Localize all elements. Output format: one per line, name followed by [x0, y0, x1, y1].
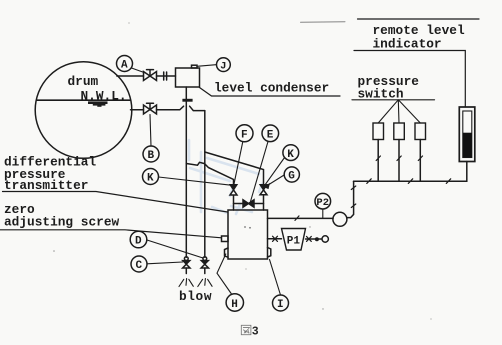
wire water pipe drop: [204, 111, 206, 258]
svg-text:E: E: [267, 130, 274, 142]
wire right impulse branch: [205, 152, 264, 185]
bottom left tab: [225, 248, 229, 257]
node F: [234, 125, 253, 184]
svg-text:K: K: [147, 173, 154, 185]
gauge: [333, 212, 347, 226]
svg-text:K: K: [287, 149, 294, 161]
water level line: [37, 99, 131, 101]
blue scan artifact strokes: [189, 140, 262, 214]
wire transmitter output to gauge: [268, 217, 334, 219]
valve on right impulse line: [260, 185, 267, 210]
svg-text:transmitter: transmitter: [4, 178, 88, 193]
equalizing valve E: [234, 200, 264, 207]
blow-off spray right: [198, 279, 212, 287]
right side tab: [268, 248, 271, 258]
joint ticks on drops: [376, 156, 422, 161]
caption 图3: [241, 325, 258, 338]
end cap: [322, 236, 328, 242]
svg-text:G: G: [288, 171, 295, 183]
wire P1 test line: [268, 238, 282, 240]
svg-text:D: D: [135, 236, 142, 248]
node K right: [265, 145, 299, 185]
zero adjusting screw nub: [222, 236, 229, 242]
remote level indicator gauge: [459, 107, 475, 162]
node A: [117, 56, 146, 74]
svg-text:I: I: [277, 299, 284, 311]
node E: [251, 125, 279, 202]
svg-text:adjusting screw: adjusting screw: [4, 214, 120, 229]
svg-text:level condenser: level condenser: [214, 81, 329, 96]
drum vessel: [35, 62, 132, 159]
label: remote level indicator: [354, 19, 479, 107]
node K left: [143, 169, 233, 186]
label: level condenser: [200, 81, 341, 97]
svg-text:P2: P2: [316, 197, 329, 209]
svg-text:N.W.L.: N.W.L.: [81, 89, 127, 104]
node H: [217, 254, 244, 311]
water level mark: [88, 101, 108, 106]
transmitter body: [228, 210, 268, 259]
svg-text:J: J: [220, 61, 226, 73]
label: pressure switch: [352, 74, 435, 102]
svg-text:P1: P1: [287, 236, 301, 248]
svg-text:H: H: [231, 299, 238, 311]
svg-text:B: B: [148, 150, 155, 162]
svg-text:3: 3: [252, 326, 259, 339]
node J: [197, 58, 230, 73]
x-joint: [307, 236, 312, 241]
node G: [264, 167, 300, 189]
wire steam pipe drum to condenser: [117, 75, 176, 77]
wire signal bus: [354, 180, 467, 182]
pressure switch 3: [415, 123, 426, 140]
union on steam pipe: [164, 72, 167, 80]
x-joint: [273, 236, 278, 241]
joint ticks on riser: [351, 186, 356, 208]
pressure switch fan lines: [378, 100, 420, 123]
pot P1: [282, 229, 306, 251]
joint tick: [295, 216, 299, 221]
node I: [270, 260, 289, 312]
flange on downpipe: [182, 99, 192, 102]
pressure switch 1: [373, 123, 384, 140]
blow valve left: [183, 257, 190, 274]
valve B: [144, 103, 157, 114]
svg-text:F: F: [241, 130, 248, 142]
svg-text:indicator: indicator: [373, 36, 442, 51]
node C: [131, 256, 183, 272]
svg-text:drum: drum: [68, 74, 99, 89]
joint ticks on bus: [367, 179, 451, 184]
wire after P1: [306, 238, 322, 240]
valve A: [144, 70, 157, 81]
node B: [143, 115, 159, 163]
stray page line: [301, 21, 346, 24]
node P2: [315, 193, 331, 218]
wire riser gauge to bus: [347, 181, 354, 217]
node D: [130, 231, 203, 258]
blow valve right: [201, 257, 208, 274]
level condenser body: [176, 68, 200, 87]
condenser vent nub: [192, 65, 198, 68]
label: differential pressure transmitter: [3, 155, 228, 213]
svg-text:A: A: [121, 60, 128, 72]
svg-text:C: C: [136, 260, 143, 272]
faint dots inside body: [244, 226, 251, 229]
valve F on left impulse line: [230, 185, 237, 210]
wire condenser downpipe: [185, 87, 187, 257]
wire switch drops: [378, 140, 420, 182]
label: zero adjusting screw: [0, 202, 222, 238]
pressure switch 2: [394, 123, 405, 140]
wire left impulse branch: [186, 162, 233, 184]
wire indicator to bus: [466, 162, 468, 182]
scan speckles: [53, 22, 431, 319]
wire water pipe from drum: [131, 106, 205, 110]
blow-off spray left: [179, 279, 193, 287]
plug dot: [315, 237, 319, 241]
svg-text:blow: blow: [179, 289, 212, 304]
